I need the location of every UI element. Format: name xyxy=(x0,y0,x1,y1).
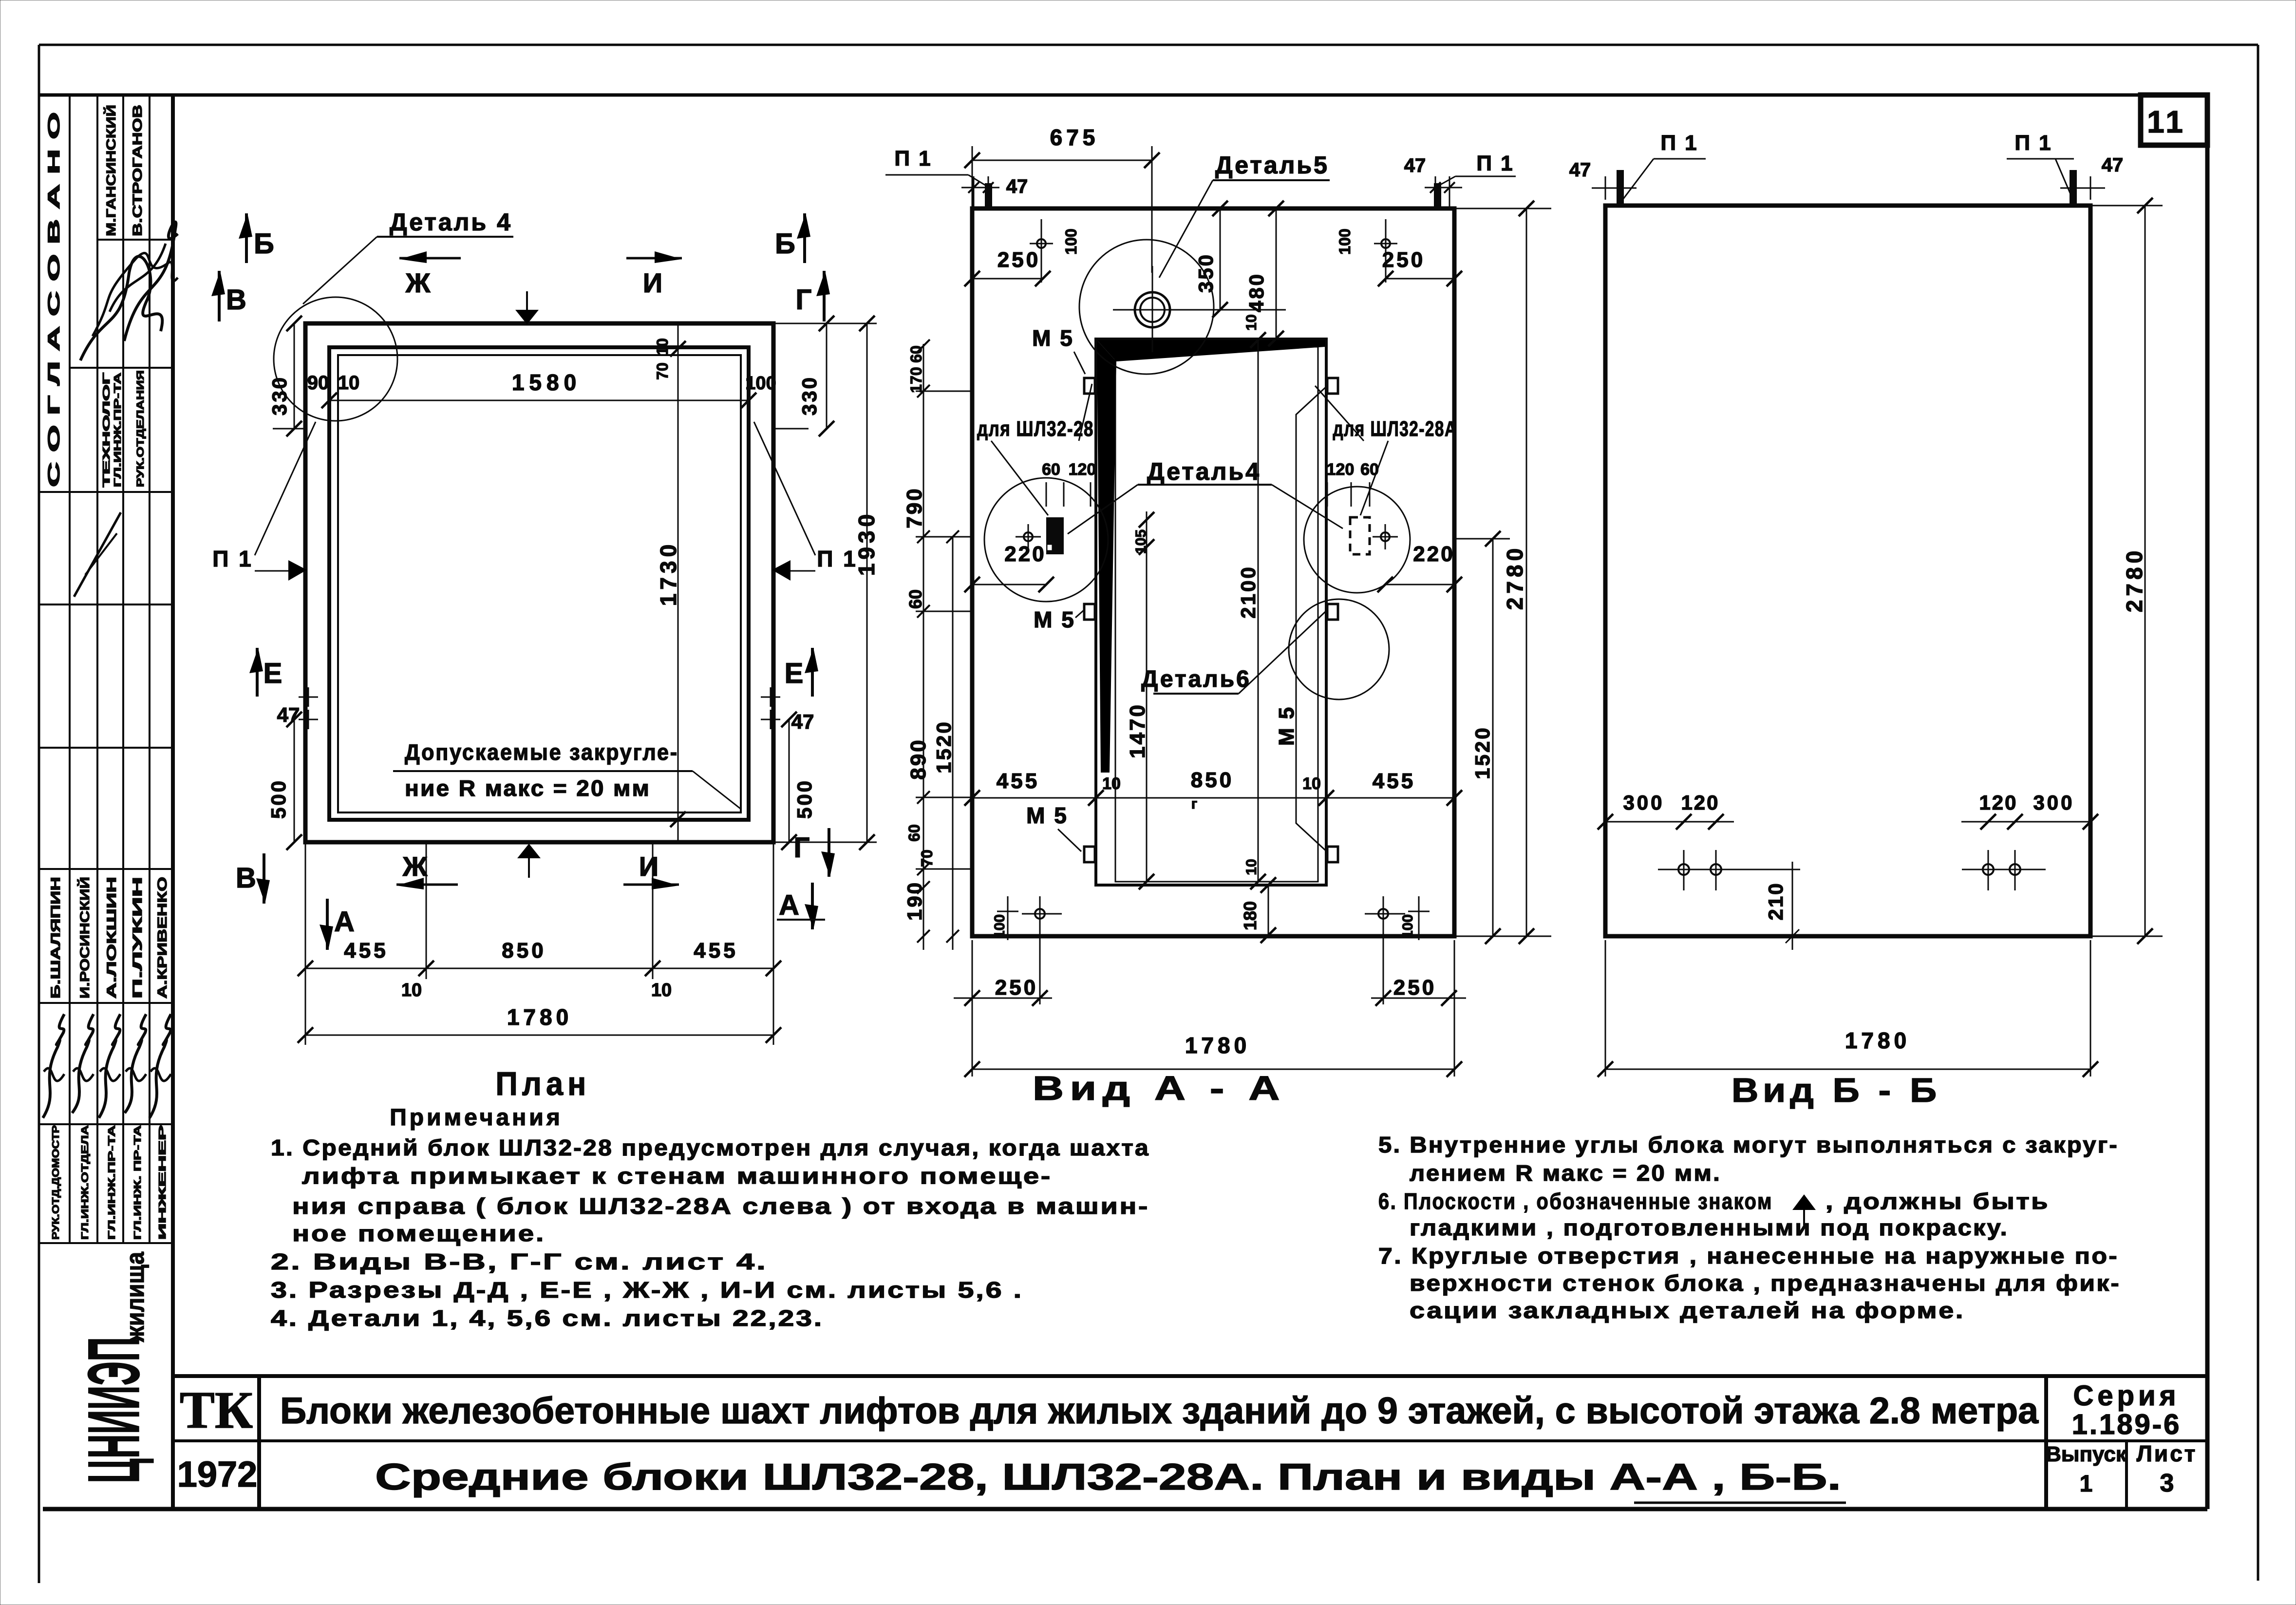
svg-text:7. Круглые отверстия , нанес: 7. Круглые отверстия , нанесенные на нар… xyxy=(1378,1243,2119,1268)
svg-text:М 5: М 5 xyxy=(1275,706,1299,746)
svg-text:М 5: М 5 xyxy=(1034,607,1075,632)
svg-text:120: 120 xyxy=(1069,460,1096,479)
svg-text:6. Плоскости , обозначенные з: 6. Плоскости , обозначенные знаком xyxy=(1378,1189,1773,1214)
svg-text:455: 455 xyxy=(344,939,388,963)
svg-text:Б.ШАЛЯПИН: Б.ШАЛЯПИН xyxy=(48,877,63,999)
svg-text:А: А xyxy=(334,906,355,938)
svg-text:лифта примыкает к сте: лифта примыкает к стенам машинного помещ… xyxy=(302,1163,1052,1189)
svg-text:100: 100 xyxy=(745,373,776,394)
svg-text:Деталь5: Деталь5 xyxy=(1215,151,1329,179)
svg-text:10: 10 xyxy=(1102,774,1121,793)
svg-text:850: 850 xyxy=(1191,768,1234,792)
svg-text:Допускаемые закругле-: Допускаемые закругле- xyxy=(405,739,678,765)
svg-text:2100: 2100 xyxy=(1237,565,1260,618)
svg-text:1.189-6: 1.189-6 xyxy=(2072,1409,2182,1440)
svg-text:РУК.ОТДЕЛАНИЯ: РУК.ОТДЕЛАНИЯ xyxy=(135,370,146,487)
svg-text:Вид А - А: Вид А - А xyxy=(1033,1069,1286,1107)
svg-text:ТК: ТК xyxy=(180,1381,253,1439)
svg-text:10: 10 xyxy=(1302,774,1321,793)
svg-text:ИНЖЕНЕР: ИНЖЕНЕР xyxy=(157,1125,168,1240)
svg-text:790: 790 xyxy=(903,487,926,528)
svg-text:РУК.ОТД.ДОМОСТР: РУК.ОТД.ДОМОСТР xyxy=(51,1125,61,1240)
svg-text:120: 120 xyxy=(1979,791,2017,814)
svg-text:455: 455 xyxy=(1373,769,1415,793)
svg-text:70: 70 xyxy=(918,850,936,867)
svg-text:ЦНИИЭП: ЦНИИЭП xyxy=(73,1337,154,1483)
svg-text:10: 10 xyxy=(338,372,360,394)
svg-text:220: 220 xyxy=(1413,542,1454,566)
svg-text:60: 60 xyxy=(1360,460,1379,479)
svg-text:ТЕХНОЛОГ: ТЕХНОЛОГ xyxy=(101,373,112,487)
svg-text:Выпуск: Выпуск xyxy=(2046,1442,2127,1466)
svg-text:100: 100 xyxy=(1400,914,1416,939)
svg-text:Серия: Серия xyxy=(2073,1380,2180,1412)
svg-text:Примечания: Примечания xyxy=(390,1105,563,1131)
svg-text:675: 675 xyxy=(1050,125,1099,150)
svg-text:1780: 1780 xyxy=(507,1004,572,1030)
svg-text:10: 10 xyxy=(401,980,422,1001)
svg-text:455: 455 xyxy=(997,769,1039,793)
svg-text:60: 60 xyxy=(905,589,925,609)
svg-text:П 1: П 1 xyxy=(1476,151,1514,175)
svg-text:П.ЛУКИН: П.ЛУКИН xyxy=(130,877,145,999)
svg-text:480: 480 xyxy=(1245,272,1268,312)
svg-text:500: 500 xyxy=(267,779,290,819)
svg-text:100: 100 xyxy=(992,914,1008,939)
svg-text:2. Виды В-В, Г-Г см.: 2. Виды В-В, Г-Г см. лист 4. xyxy=(271,1249,768,1274)
svg-text:1730: 1730 xyxy=(656,541,681,606)
svg-text:47: 47 xyxy=(1006,176,1028,197)
svg-text:120: 120 xyxy=(1681,791,1719,814)
svg-text:10: 10 xyxy=(651,980,672,1001)
svg-text:60: 60 xyxy=(905,824,923,842)
svg-text:4. Детали 1, 4, 5,6 см. л: 4. Детали 1, 4, 5,6 см. листы 22,23. xyxy=(271,1305,824,1331)
svg-text:1580: 1580 xyxy=(512,370,581,395)
svg-text:330: 330 xyxy=(798,376,821,415)
svg-text:47: 47 xyxy=(277,703,300,726)
svg-text:В: В xyxy=(226,284,246,316)
svg-text:10: 10 xyxy=(654,338,671,356)
svg-text:47: 47 xyxy=(1404,155,1426,176)
svg-text:Г: Г xyxy=(796,284,812,316)
svg-text:С О Г Л А С О В А Н О: С О Г Л А С О В А Н О xyxy=(45,112,63,487)
svg-text:1. Средний блок ШЛ32-28 пред: 1. Средний блок ШЛ32-28 предусмотрен для… xyxy=(271,1135,1150,1160)
svg-text:1520: 1520 xyxy=(1471,726,1494,779)
svg-text:10: 10 xyxy=(1243,314,1260,330)
svg-text:В: В xyxy=(236,862,256,894)
svg-text:г: г xyxy=(1191,796,1198,812)
svg-text:М 5: М 5 xyxy=(1026,803,1068,828)
svg-text:250: 250 xyxy=(1393,976,1436,1000)
svg-text:70: 70 xyxy=(654,362,671,380)
svg-text:3: 3 xyxy=(2160,1469,2174,1497)
svg-text:для ШЛ32-28А: для ШЛ32-28А xyxy=(1333,417,1457,441)
svg-text:5. Внутренние углы блока: 5. Внутренние углы блока могут выполнять… xyxy=(1378,1132,2119,1157)
svg-text:Деталь4: Деталь4 xyxy=(1147,458,1261,485)
svg-text:500: 500 xyxy=(793,779,816,819)
svg-text:105: 105 xyxy=(1133,529,1149,554)
svg-text:М 5: М 5 xyxy=(1032,325,1074,351)
svg-text:60: 60 xyxy=(907,345,925,363)
svg-text:11: 11 xyxy=(2147,104,2186,139)
svg-text:Деталь 4: Деталь 4 xyxy=(390,208,512,236)
svg-text:Б: Б xyxy=(775,228,795,260)
svg-text:П 1: П 1 xyxy=(212,546,253,571)
svg-text:ГЛ.ИНЖ.ОТДЕЛА: ГЛ.ИНЖ.ОТДЕЛА xyxy=(80,1125,91,1240)
svg-text:И: И xyxy=(643,267,662,298)
svg-text:ния справа ( блок ШЛ32-28: ния справа ( блок ШЛ32-28А слева ) от вх… xyxy=(292,1193,1149,1219)
svg-text:П 1: П 1 xyxy=(817,546,857,571)
svg-text:М.ГАНСИНСКИЙ: М.ГАНСИНСКИЙ xyxy=(103,105,118,236)
svg-text:ГЛ.ИНЖ.ПР-ТА: ГЛ.ИНЖ.ПР-ТА xyxy=(107,1125,117,1240)
svg-text:1780: 1780 xyxy=(1185,1033,1250,1058)
svg-text:1972: 1972 xyxy=(177,1454,258,1494)
svg-text:250: 250 xyxy=(995,976,1038,1000)
svg-text:250: 250 xyxy=(1382,248,1425,272)
svg-text:П 1: П 1 xyxy=(1660,131,1698,155)
svg-text:120: 120 xyxy=(1327,460,1355,479)
svg-text:Ж: Ж xyxy=(405,267,431,298)
svg-text:190: 190 xyxy=(903,881,926,921)
svg-text:210: 210 xyxy=(1764,882,1787,920)
svg-text:А: А xyxy=(779,889,799,921)
svg-text:Е: Е xyxy=(785,658,804,689)
svg-text:гладкими , подготовленными: гладкими , подготовленными под покраску. xyxy=(1410,1215,2009,1240)
svg-text:170: 170 xyxy=(907,367,925,393)
svg-text:В.СТРОГАНОВ: В.СТРОГАНОВ xyxy=(130,105,145,236)
svg-text:для ШЛ32-28: для ШЛ32-28 xyxy=(977,417,1094,441)
svg-text:180: 180 xyxy=(1240,901,1260,930)
svg-text:ГЛ.ИНЖ. ПР-ТА: ГЛ.ИНЖ. ПР-ТА xyxy=(132,1125,143,1240)
svg-text:2780: 2780 xyxy=(1502,545,1527,610)
svg-text:П 1: П 1 xyxy=(2014,131,2052,155)
svg-text:100: 100 xyxy=(1062,228,1080,254)
svg-text:Вид Б - Б: Вид Б - Б xyxy=(1731,1071,1941,1109)
svg-text:Ж: Ж xyxy=(402,851,428,882)
svg-text:60: 60 xyxy=(1042,460,1060,479)
svg-text:1: 1 xyxy=(2080,1471,2093,1497)
svg-text:А.КРИВЕНКО: А.КРИВЕНКО xyxy=(155,877,169,999)
svg-text:300: 300 xyxy=(1623,791,1664,814)
svg-text:лением R макс = 20 мм.: лением R макс = 20 мм. xyxy=(1410,1160,1721,1186)
svg-text:1780: 1780 xyxy=(1845,1028,1910,1053)
svg-text:3. Разрезы Д-Д , Е-Е , Ж: 3. Разрезы Д-Д , Е-Е , Ж-Ж , И-И см. лис… xyxy=(271,1277,1023,1303)
svg-text:Блоки железобетонные шахт: Блоки железобетонные шахт лифтов для жил… xyxy=(280,1390,2039,1432)
svg-text:455: 455 xyxy=(694,939,738,963)
svg-text:250: 250 xyxy=(997,248,1040,272)
svg-text:Лист: Лист xyxy=(2137,1441,2198,1466)
svg-text:Б: Б xyxy=(254,228,274,260)
svg-text:300: 300 xyxy=(2033,791,2074,814)
svg-text:ное помещение.: ное помещение. xyxy=(292,1221,546,1246)
svg-text:100: 100 xyxy=(1336,228,1354,254)
svg-text:А.ЛОКШИН: А.ЛОКШИН xyxy=(104,877,119,999)
svg-text:План: План xyxy=(496,1065,591,1102)
svg-text:жилища: жилища xyxy=(121,1251,150,1342)
svg-text:П 1: П 1 xyxy=(894,147,932,170)
svg-text:90: 90 xyxy=(307,372,329,394)
svg-text:220: 220 xyxy=(1004,542,1046,566)
svg-text:И.РОСИНСКИЙ: И.РОСИНСКИЙ xyxy=(77,877,92,999)
svg-text:1930: 1930 xyxy=(854,510,879,576)
svg-text:2780: 2780 xyxy=(2122,547,2147,612)
svg-text:47: 47 xyxy=(2102,154,2124,176)
svg-text:сации закладных деталей: сации закладных деталей на форме. xyxy=(1410,1298,1965,1323)
svg-text:Средние блоки ШЛ32-28,: Средние блоки ШЛ32-28, ШЛ32-28А. План и … xyxy=(375,1456,1841,1498)
svg-text:верхности стенок блока ,: верхности стенок блока , предназначены д… xyxy=(1410,1270,2121,1296)
svg-text:10: 10 xyxy=(1243,859,1260,875)
svg-text:850: 850 xyxy=(502,939,546,963)
svg-text:ние R макс = 20 мм: ние R макс = 20 мм xyxy=(405,775,651,801)
svg-text:350: 350 xyxy=(1194,253,1217,293)
svg-text:Е: Е xyxy=(263,658,282,689)
svg-text:47: 47 xyxy=(1569,159,1591,181)
svg-text:330: 330 xyxy=(268,376,291,415)
svg-text:И: И xyxy=(639,851,659,882)
svg-text:Деталь6: Деталь6 xyxy=(1141,666,1251,692)
svg-text:890: 890 xyxy=(906,738,930,779)
svg-text:1470: 1470 xyxy=(1126,703,1149,758)
svg-text:, должны быть: , должны быть xyxy=(1826,1189,2050,1214)
svg-text:1520: 1520 xyxy=(932,720,955,773)
svg-text:ГЛ.ИНЖ.ПР-ТА: ГЛ.ИНЖ.ПР-ТА xyxy=(113,373,123,487)
